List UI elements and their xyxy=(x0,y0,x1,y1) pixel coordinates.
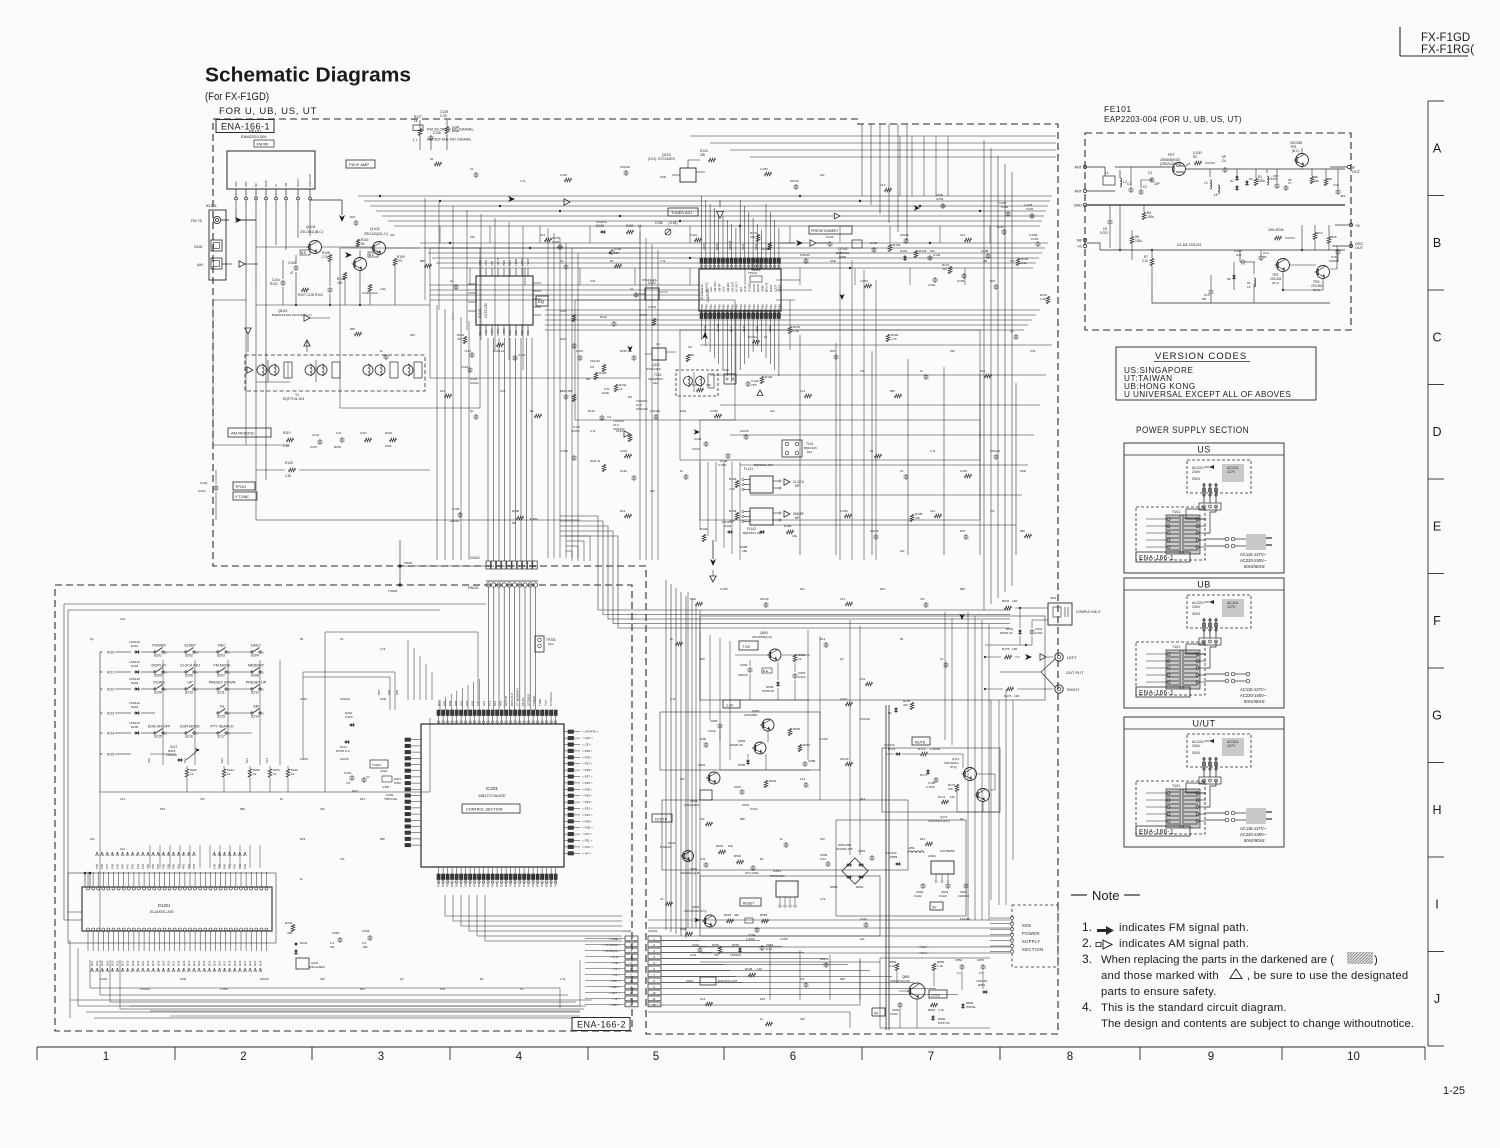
svg-text:G10: G10 xyxy=(136,960,140,966)
svg-text:EQ: EQ xyxy=(538,299,545,304)
svg-text:0.01: 0.01 xyxy=(1030,349,1036,353)
svg-text:4.7k: 4.7k xyxy=(930,449,936,453)
wire loops tuner section xyxy=(340,248,980,520)
svg-text:100k: 100k xyxy=(830,259,837,263)
svg-text:Q1: Q1 xyxy=(400,977,404,981)
svg-text:S210: S210 xyxy=(185,691,193,695)
svg-text:47k: 47k xyxy=(860,369,865,373)
Q121 digital transistor xyxy=(645,342,676,371)
R141 R148 left of IC102 xyxy=(748,231,772,282)
svg-text:S214: S214 xyxy=(251,715,259,719)
svg-text:061350-465: 061350-465 xyxy=(836,847,853,851)
svg-text:2.2/50: 2.2/50 xyxy=(780,937,788,941)
svg-text:9V: 9V xyxy=(874,1012,879,1016)
svg-text:1SS119: 1SS119 xyxy=(722,520,733,524)
svg-text:C14: C14 xyxy=(800,777,806,781)
svg-text:0.022: 0.022 xyxy=(798,675,806,679)
svg-text:VSS: VSS xyxy=(484,260,488,266)
svg-text:R144: R144 xyxy=(893,243,901,247)
svg-text:120: 120 xyxy=(1012,599,1017,603)
svg-text:1: 1 xyxy=(103,1051,109,1063)
svg-text:< LPDATA >: < LPDATA > xyxy=(582,730,598,734)
svg-text:P20/SEG: P20/SEG xyxy=(437,874,441,887)
svg-text:D1201: D1201 xyxy=(158,903,171,908)
svg-text:10: 10 xyxy=(652,991,656,995)
svg-text:R563: R563 xyxy=(724,913,732,917)
svg-text:8: 8 xyxy=(1067,1051,1073,1063)
svg-text:K05: K05 xyxy=(454,700,458,706)
svg-text:P38: P38 xyxy=(212,864,216,869)
bus verticals right side xyxy=(862,124,1012,610)
svg-text:1SS119: 1SS119 xyxy=(129,721,140,725)
svg-text:2.2/50: 2.2/50 xyxy=(710,409,718,413)
svg-text:L9: L9 xyxy=(1247,285,1251,289)
svg-text:10k: 10k xyxy=(770,409,775,413)
svg-text:127V: 127V xyxy=(1227,470,1236,474)
svg-text:D161: D161 xyxy=(755,325,759,332)
svg-text:S215: S215 xyxy=(217,715,225,719)
svg-text:470: 470 xyxy=(457,337,462,341)
svg-text:COMPUL INK-S: COMPUL INK-S xyxy=(1076,610,1101,614)
junction dots bus A xyxy=(379,195,981,269)
svg-text:220/16: 220/16 xyxy=(840,757,849,761)
power supply US box xyxy=(1124,443,1284,573)
svg-text:5: 5 xyxy=(653,1051,659,1063)
svg-text:10k: 10k xyxy=(950,795,955,799)
svg-text:R15: R15 xyxy=(860,797,866,801)
svg-text:DCS IN: DCS IN xyxy=(504,696,508,706)
Q122 digital transistor xyxy=(638,278,668,309)
arrow down at TUNED xyxy=(716,200,723,218)
svg-text:< P30 >: < P30 > xyxy=(582,755,593,759)
svg-text:1u: 1u xyxy=(957,971,961,975)
svg-text:EAM2203-004: EAM2203-004 xyxy=(241,134,267,139)
svg-text:0.022: 0.022 xyxy=(620,449,627,453)
svg-text:FM IF AMP: FM IF AMP xyxy=(349,162,369,167)
IC121 bottom bus to connector xyxy=(488,338,532,561)
svg-text:C141: C141 xyxy=(312,433,320,437)
wires FE101 pins down xyxy=(213,200,310,480)
svg-text:PIN: PIN xyxy=(722,304,726,309)
svg-text:P44: P44 xyxy=(243,864,247,869)
svg-text:R156: R156 xyxy=(599,371,607,375)
svg-text:Schematic Diagrams: Schematic Diagrams xyxy=(205,64,411,87)
svg-text:1k: 1k xyxy=(291,772,295,776)
svg-text:C263: C263 xyxy=(362,929,370,933)
svg-text:P21/SEG: P21/SEG xyxy=(441,874,445,887)
svg-text:D204: D204 xyxy=(131,705,139,709)
svg-text:2200/16: 2200/16 xyxy=(958,894,969,898)
svg-text:22k: 22k xyxy=(700,153,706,157)
svg-text:0.022: 0.022 xyxy=(914,894,922,898)
svg-text:0.01: 0.01 xyxy=(700,857,706,861)
svg-text:4.7k: 4.7k xyxy=(891,337,897,341)
svg-text:0.022: 0.022 xyxy=(100,977,107,981)
svg-text:100k: 100k xyxy=(385,444,392,448)
board ENA-166-2 label xyxy=(572,1018,630,1031)
svg-text:0.022: 0.022 xyxy=(708,729,716,733)
FE101 R7 xyxy=(1142,250,1154,290)
svg-text:FOR U, UB, US, UT: FOR U, UB, US, UT xyxy=(219,106,317,117)
svg-text:D12: D12 xyxy=(360,797,366,801)
svg-text:0.022: 0.022 xyxy=(560,173,567,177)
svg-text:K02: K02 xyxy=(465,700,469,706)
svg-text:P20/SEG: P20/SEG xyxy=(482,874,486,887)
svg-text:270: 270 xyxy=(397,259,403,263)
S-bend bus into audio xyxy=(560,516,1010,628)
svg-text:FM MODE: FM MODE xyxy=(214,664,232,668)
svg-text:R164: R164 xyxy=(729,509,737,513)
svg-text:EON ON-OFF: EON ON-OFF xyxy=(148,725,171,729)
svg-text:DC5 TR: DC5 TR xyxy=(655,818,668,822)
power supply section title xyxy=(1136,425,1249,435)
svg-text:C607: C607 xyxy=(734,785,742,789)
svg-text:PTY SEARCH: PTY SEARCH xyxy=(211,725,234,729)
svg-text:47k: 47k xyxy=(920,597,925,601)
svg-text:127V: 127V xyxy=(1227,605,1236,609)
svg-text:PIN: PIN xyxy=(778,304,782,309)
svg-text:1SS119: 1SS119 xyxy=(886,851,897,855)
svg-text:D12: D12 xyxy=(440,389,446,393)
antenna jack AT101 xyxy=(191,204,226,280)
svg-text:7.5V: 7.5V xyxy=(742,644,751,649)
svg-text:VCC: VCC xyxy=(722,286,726,292)
svg-text:100k: 100k xyxy=(1135,239,1142,243)
FE101 C11 C12 xyxy=(1234,249,1269,265)
svg-text:HZ6/4L: HZ6/4L xyxy=(966,1005,976,1009)
R135 column xyxy=(910,512,922,522)
svg-text:P40: P40 xyxy=(223,864,227,869)
svg-text:< F2 >: < F2 > xyxy=(612,967,620,971)
svg-text:S001: S001 xyxy=(1192,751,1200,755)
svg-text:1SS119: 1SS119 xyxy=(129,640,140,644)
svg-text:L1: L1 xyxy=(1105,171,1109,175)
svg-text:CN101: CN101 xyxy=(648,929,658,933)
svg-text:R565: R565 xyxy=(760,913,768,917)
svg-text:ENA-166-1: ENA-166-1 xyxy=(221,122,270,132)
svg-text:C157: C157 xyxy=(997,225,1005,229)
scatter labels keypad board xyxy=(90,617,566,991)
FE101 TR3 xyxy=(1311,266,1330,293)
svg-text:B: B xyxy=(1433,236,1441,250)
svg-text:4.7k: 4.7k xyxy=(560,977,566,981)
svg-text:IC821: IC821 xyxy=(928,854,936,858)
svg-text:PO1: PO1 xyxy=(508,260,512,266)
FE101 R4 C8 R6 xyxy=(1100,205,1154,260)
svg-text:P32/G3: P32/G3 xyxy=(477,877,481,887)
svg-text:FM 75: FM 75 xyxy=(191,219,202,223)
Q231 cluster xyxy=(285,921,373,969)
svg-text:33P: 33P xyxy=(1273,174,1278,178)
display top labels row xyxy=(95,852,247,869)
signal arrows pair xyxy=(780,240,830,246)
svg-text:D8: D8 xyxy=(586,377,590,381)
svg-text:C148: C148 xyxy=(694,437,702,441)
svg-text:220/16: 220/16 xyxy=(900,233,909,237)
svg-text:FX-F1RG(: FX-F1RG( xyxy=(1421,44,1474,56)
FE101 wires top xyxy=(1115,148,1345,189)
svg-text:BO1: BO1 xyxy=(508,330,512,336)
display risers xyxy=(150,845,260,868)
svg-text:Q601: Q601 xyxy=(698,763,706,767)
svg-text:4.7/50: 4.7/50 xyxy=(718,463,727,467)
svg-text:DISPLAY: DISPLAY xyxy=(152,664,168,668)
CN101 wires extended right xyxy=(661,941,958,1001)
svg-text:MLC: MLC xyxy=(352,789,359,793)
svg-text:B.E: B.E xyxy=(369,253,374,257)
IC201 microcontroller xyxy=(421,724,564,867)
X142 resonator xyxy=(722,368,736,384)
svg-text:C144: C144 xyxy=(933,253,941,257)
svg-text:R1: R1 xyxy=(610,259,614,263)
svg-text:R15: R15 xyxy=(960,529,966,533)
svg-text:CLOCK ADJ: CLOCK ADJ xyxy=(180,664,200,668)
svg-text:< RST >: < RST > xyxy=(610,979,621,983)
svg-text:C102: C102 xyxy=(288,261,296,265)
svg-text:S217: S217 xyxy=(217,735,225,739)
svg-text:220/16: 220/16 xyxy=(340,757,349,761)
PRESET label xyxy=(809,226,852,234)
svg-text:220/16: 220/16 xyxy=(760,597,769,601)
svg-text:EON MODE: EON MODE xyxy=(180,725,200,729)
svg-text:< P24 >: < P24 > xyxy=(582,794,593,798)
svg-text:-006R: -006R xyxy=(838,255,847,259)
svg-text:RF AGC: RF AGC xyxy=(705,282,709,292)
svg-text:D203: D203 xyxy=(131,681,139,685)
svg-text:2SC2058(Q,R): 2SC2058(Q,R) xyxy=(752,635,772,639)
svg-text:AC220-240V~: AC220-240V~ xyxy=(1240,558,1267,563)
svg-text:1k: 1k xyxy=(227,772,231,776)
svg-text:R176: R176 xyxy=(1004,694,1012,698)
svg-text:-012: -012 xyxy=(652,381,658,385)
svg-text:R1: R1 xyxy=(480,977,484,981)
svg-text:PIN: PIN xyxy=(726,304,730,309)
svg-text:0.01: 0.01 xyxy=(500,389,506,393)
svg-text:P37: P37 xyxy=(156,864,160,869)
svg-text:1SS119: 1SS119 xyxy=(166,753,177,757)
svg-text:C143: C143 xyxy=(703,325,707,332)
svg-text:K03: K03 xyxy=(443,700,447,706)
svg-text:< P26 >: < P26 > xyxy=(582,787,593,791)
svg-text:ANT: ANT xyxy=(1074,190,1082,194)
svg-text:7P3: 7P3 xyxy=(751,383,757,387)
svg-text:P42: P42 xyxy=(233,864,237,869)
svg-text:240V: 240V xyxy=(1192,470,1201,474)
svg-text:R119: R119 xyxy=(283,431,291,435)
svg-text:0.01: 0.01 xyxy=(120,617,126,621)
Q101 area wires xyxy=(256,232,430,306)
svg-text:ENA-166-1: ENA-166-1 xyxy=(1139,555,1174,562)
svg-text:4.7k: 4.7k xyxy=(820,897,826,901)
keypad left bus xyxy=(99,652,101,792)
svg-text:< P36 >: < P36 > xyxy=(582,749,593,753)
svg-text:SECTION: SECTION xyxy=(1022,947,1043,952)
svg-text:< GND >: < GND > xyxy=(609,985,620,989)
C156 trimmer xyxy=(655,221,677,235)
svg-text:D: D xyxy=(1432,425,1441,439)
arrow up below IC102 xyxy=(702,332,708,339)
D125 R152 parts xyxy=(596,220,642,234)
svg-text:D205: D205 xyxy=(131,725,139,729)
svg-text:< CLK >: < CLK > xyxy=(582,736,593,740)
svg-text:X201: X201 xyxy=(380,769,388,773)
svg-text:220/16: 220/16 xyxy=(870,529,879,533)
svg-text:XOUT: XOUT xyxy=(496,257,500,266)
svg-text:330: 330 xyxy=(320,977,325,981)
svg-text:T101: T101 xyxy=(1172,510,1180,514)
svg-text:1SS119: 1SS119 xyxy=(140,987,150,991)
svg-text:10k: 10k xyxy=(800,587,805,591)
svg-text:PIN: PIN xyxy=(748,304,752,309)
svg-text:R115: R115 xyxy=(385,431,392,435)
svg-text:UP: UP xyxy=(188,681,194,685)
svg-text:K06: K06 xyxy=(459,700,463,706)
svg-text:DTA124ES: DTA124ES xyxy=(646,367,661,371)
svg-text:G16: G16 xyxy=(218,960,222,966)
svg-text:S208: S208 xyxy=(251,674,259,678)
svg-text:1k: 1k xyxy=(190,772,194,776)
svg-text:S201: S201 xyxy=(154,654,162,658)
audio long verticals xyxy=(886,612,999,1030)
svg-text:GND: GND xyxy=(264,180,268,188)
svg-text:0.022: 0.022 xyxy=(890,1012,898,1016)
IC201 top pin labels xyxy=(437,688,553,706)
svg-text:C156: C156 xyxy=(655,221,663,225)
svg-text:1SS119: 1SS119 xyxy=(730,953,741,957)
IC201 bottom pads xyxy=(437,867,558,887)
5V label xyxy=(930,902,943,910)
svg-text:11: 11 xyxy=(653,997,656,1001)
svg-text:G17: G17 xyxy=(121,960,125,966)
svg-text:0.022: 0.022 xyxy=(939,894,947,898)
connector CN102 xyxy=(470,556,537,569)
svg-text:AM IN: AM IN xyxy=(700,284,704,292)
svg-text:K12: K12 xyxy=(220,758,224,763)
FE101 module dashed outline xyxy=(1085,104,1351,330)
svg-text:G12: G12 xyxy=(248,960,252,966)
svg-text:Yout: Yout xyxy=(543,700,547,706)
IC102 bottom risers xyxy=(702,319,779,383)
svg-text:S202: S202 xyxy=(185,654,193,658)
arrow down FE101 xyxy=(310,200,345,222)
svg-text:D1-D8 1SS143: D1-D8 1SS143 xyxy=(1177,243,1201,247)
svg-text:C163: C163 xyxy=(768,325,772,332)
svg-text:330: 330 xyxy=(650,489,655,493)
svg-text:ANT: ANT xyxy=(244,181,248,187)
svg-text:C127: C127 xyxy=(576,349,584,353)
svg-text:3.: 3. xyxy=(1082,952,1092,966)
board ENA-166-2 dashed outline xyxy=(55,585,632,1031)
svg-text:MTZ6.2C: MTZ6.2C xyxy=(1000,631,1014,635)
svg-text:10k: 10k xyxy=(930,249,935,253)
svg-text:12: 12 xyxy=(629,1003,633,1007)
svg-text:IF IN: IF IN xyxy=(743,286,747,292)
svg-text:100k: 100k xyxy=(680,927,687,931)
svg-text:R15: R15 xyxy=(830,349,836,353)
svg-text:PIN: PIN xyxy=(730,304,734,309)
svg-text:PIN: PIN xyxy=(700,304,704,309)
svg-text:< TxBE >: < TxBE > xyxy=(608,937,620,941)
svg-text:DAILY: DAILY xyxy=(251,644,262,648)
svg-text:KO5: KO5 xyxy=(107,753,114,757)
svg-text:C1: C1 xyxy=(940,657,944,661)
svg-text:S212: S212 xyxy=(251,691,259,695)
svg-text:< P17 >: < P17 > xyxy=(582,832,593,836)
svg-text:R131 1k: R131 1k xyxy=(590,459,601,463)
svg-text:100: 100 xyxy=(1014,694,1019,698)
svg-text:D862: D862 xyxy=(856,885,864,889)
board ENA-166-1 header label xyxy=(216,106,317,133)
svg-text:AC220-240V~: AC220-240V~ xyxy=(1240,832,1267,837)
svg-text:2: 2 xyxy=(240,1051,246,1063)
svg-text:G13: G13 xyxy=(151,960,155,966)
svg-text:DSC114ES: DSC114ES xyxy=(309,965,325,969)
svg-text:G14: G14 xyxy=(258,960,262,966)
svg-text:NE: NE xyxy=(1077,239,1083,243)
svg-text:7: 7 xyxy=(928,1051,934,1063)
audio bus horizontals xyxy=(648,920,1010,953)
svg-text:C124: C124 xyxy=(518,353,526,357)
svg-text:D12: D12 xyxy=(920,837,926,841)
svg-text:FE101: FE101 xyxy=(1104,104,1132,114)
keypad column drops and resistors xyxy=(100,660,430,792)
svg-text:C1: C1 xyxy=(630,287,634,291)
svg-text:G13: G13 xyxy=(253,960,257,966)
svg-text:P23: P23 xyxy=(495,881,499,887)
svg-text:R174: R174 xyxy=(938,795,946,799)
FE101 C15 xyxy=(1329,249,1341,263)
svg-text:I: I xyxy=(1435,897,1438,911)
svg-text:L851: L851 xyxy=(908,846,915,850)
svg-text:ANT: ANT xyxy=(234,181,238,187)
version codes box xyxy=(1116,347,1316,400)
1.3V block xyxy=(708,700,816,770)
wire bus second band xyxy=(420,243,1048,268)
svg-text:2SC3311A(P,Q): 2SC3311A(P,Q) xyxy=(928,819,950,823)
svg-text:AM OSC: AM OSC xyxy=(713,281,717,292)
svg-text:220/16: 220/16 xyxy=(740,429,749,433)
svg-text:FL141: FL141 xyxy=(744,467,753,471)
svg-text:68P: 68P xyxy=(420,259,425,263)
svg-text:DOWN: DOWN xyxy=(153,681,165,685)
svg-text:S206: S206 xyxy=(185,674,193,678)
display bottom labels xyxy=(90,960,262,972)
svg-text:P41: P41 xyxy=(126,864,130,869)
svg-text:2SC535: 2SC535 xyxy=(1290,141,1302,145)
svg-text:47k: 47k xyxy=(903,703,908,707)
TUNED ADJ label xyxy=(668,208,698,216)
svg-text:6P: 6P xyxy=(1222,155,1226,159)
R143 label xyxy=(700,149,716,162)
svg-text:C143: C143 xyxy=(826,235,834,239)
transistor Q104 xyxy=(352,252,379,271)
svg-text:G15: G15 xyxy=(110,960,114,966)
bottom bus extension xyxy=(130,960,580,1016)
svg-text:VDD2: VDD2 xyxy=(509,879,513,887)
svg-text:AC115-127V~: AC115-127V~ xyxy=(1240,826,1267,831)
more arrows xyxy=(627,205,964,922)
svg-text:P32/G3: P32/G3 xyxy=(522,877,526,887)
svg-text:G11: G11 xyxy=(141,960,145,966)
svg-text:P42: P42 xyxy=(182,864,186,869)
svg-text:<: < xyxy=(100,752,103,757)
svg-text:68P: 68P xyxy=(240,807,245,811)
svg-text:C652: C652 xyxy=(740,663,748,667)
svg-text:2.1k: 2.1k xyxy=(1142,259,1148,263)
svg-text:1SS119: 1SS119 xyxy=(860,717,870,721)
svg-text:C158: C158 xyxy=(981,249,989,253)
svg-text:R532: R532 xyxy=(734,854,742,858)
